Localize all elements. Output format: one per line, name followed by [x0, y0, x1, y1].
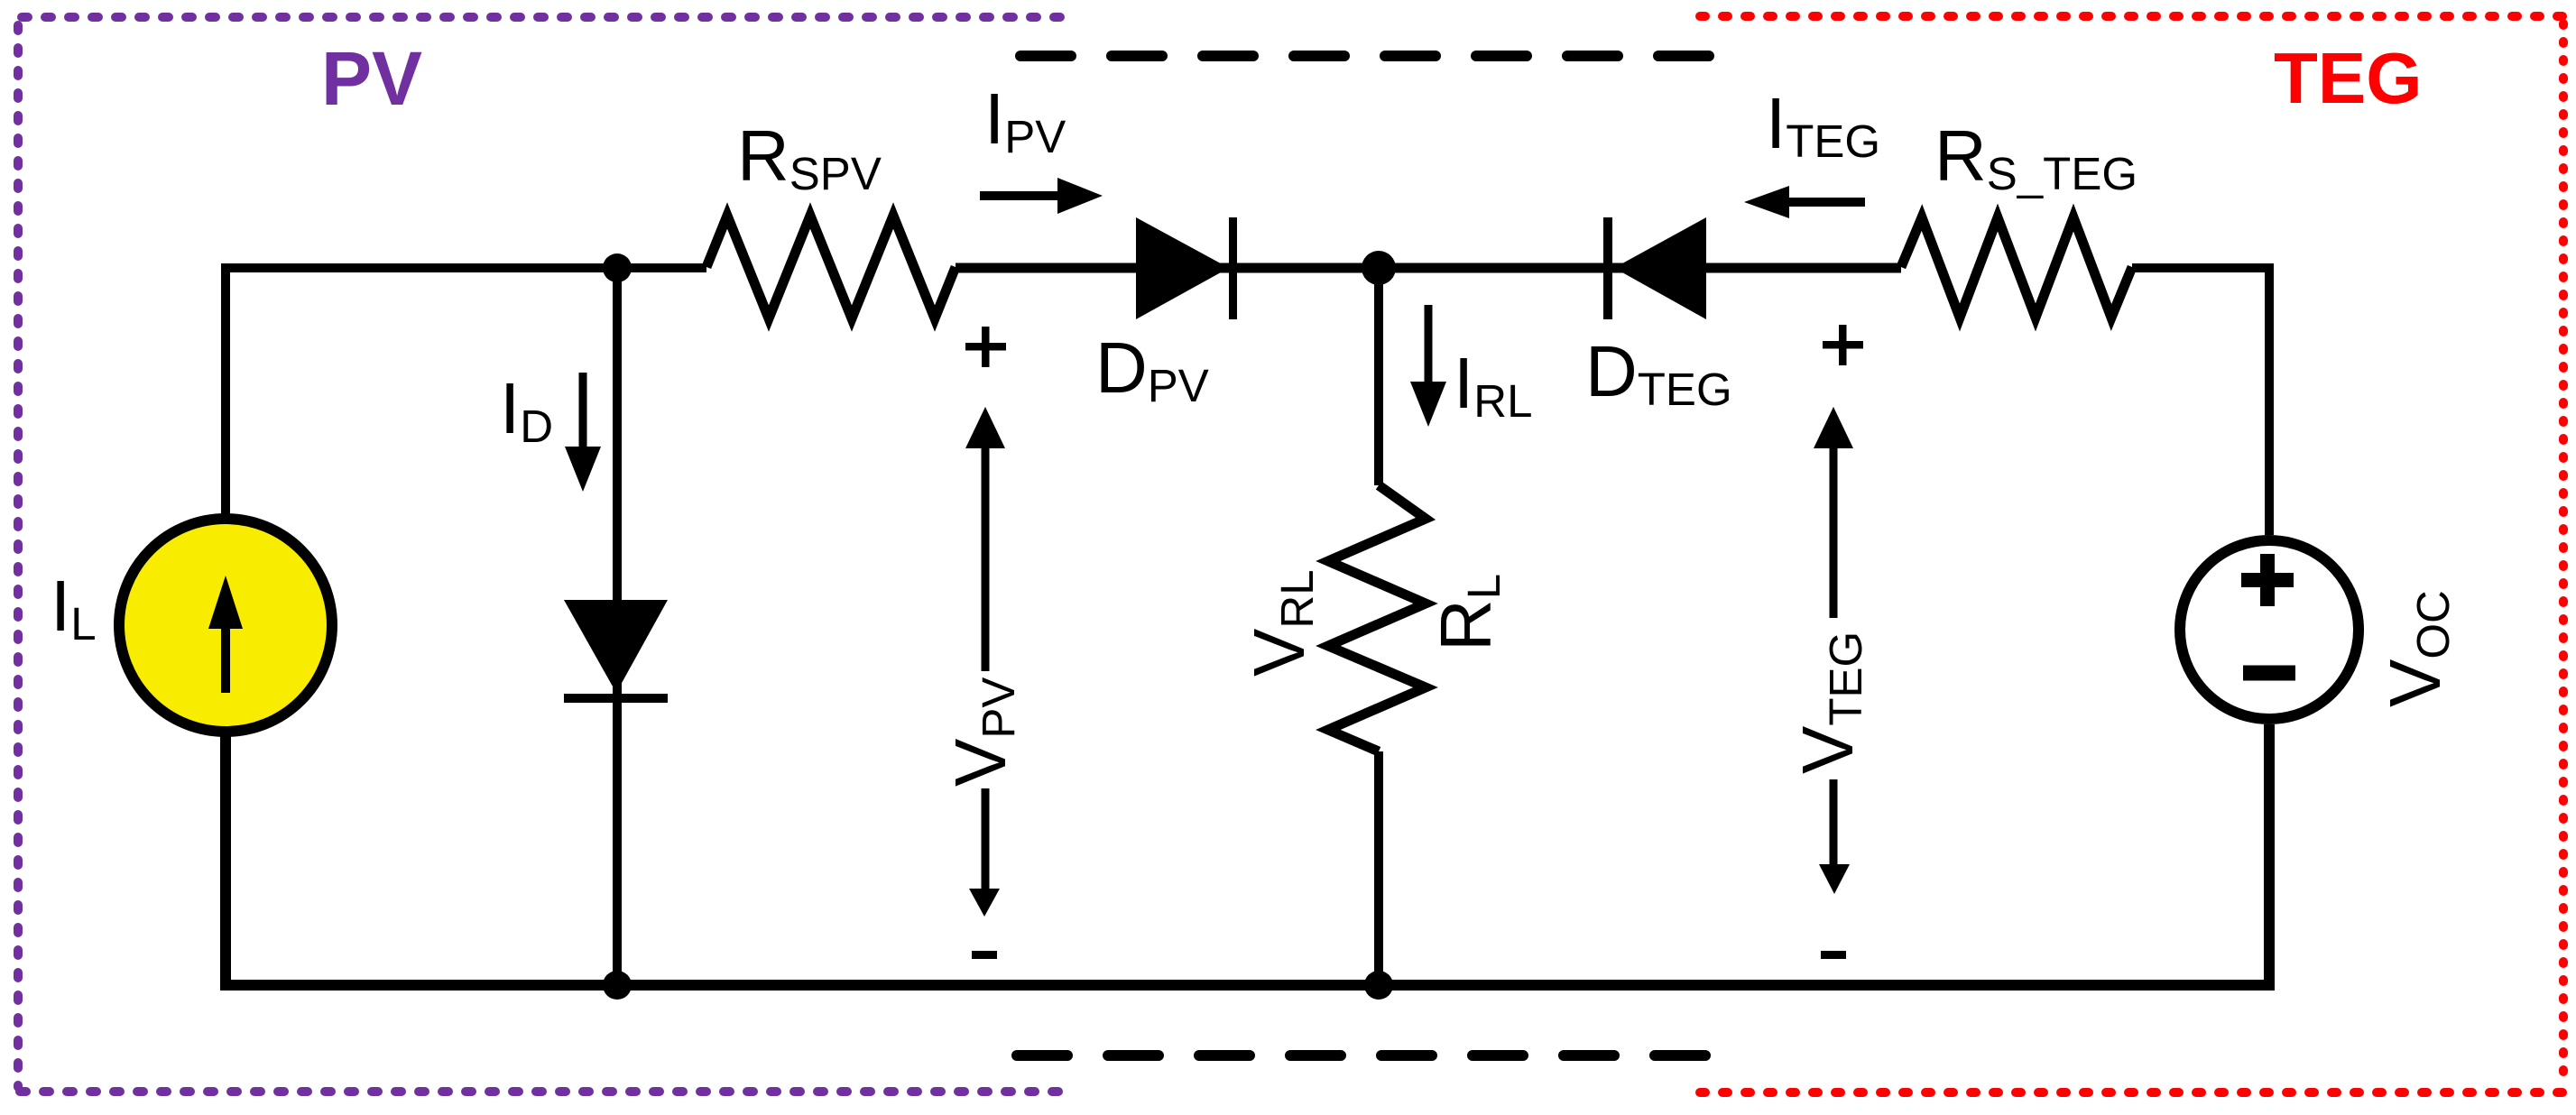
- svg-text:TEG: TEG: [2274, 38, 2422, 118]
- svg-text:PV: PV: [321, 36, 422, 121]
